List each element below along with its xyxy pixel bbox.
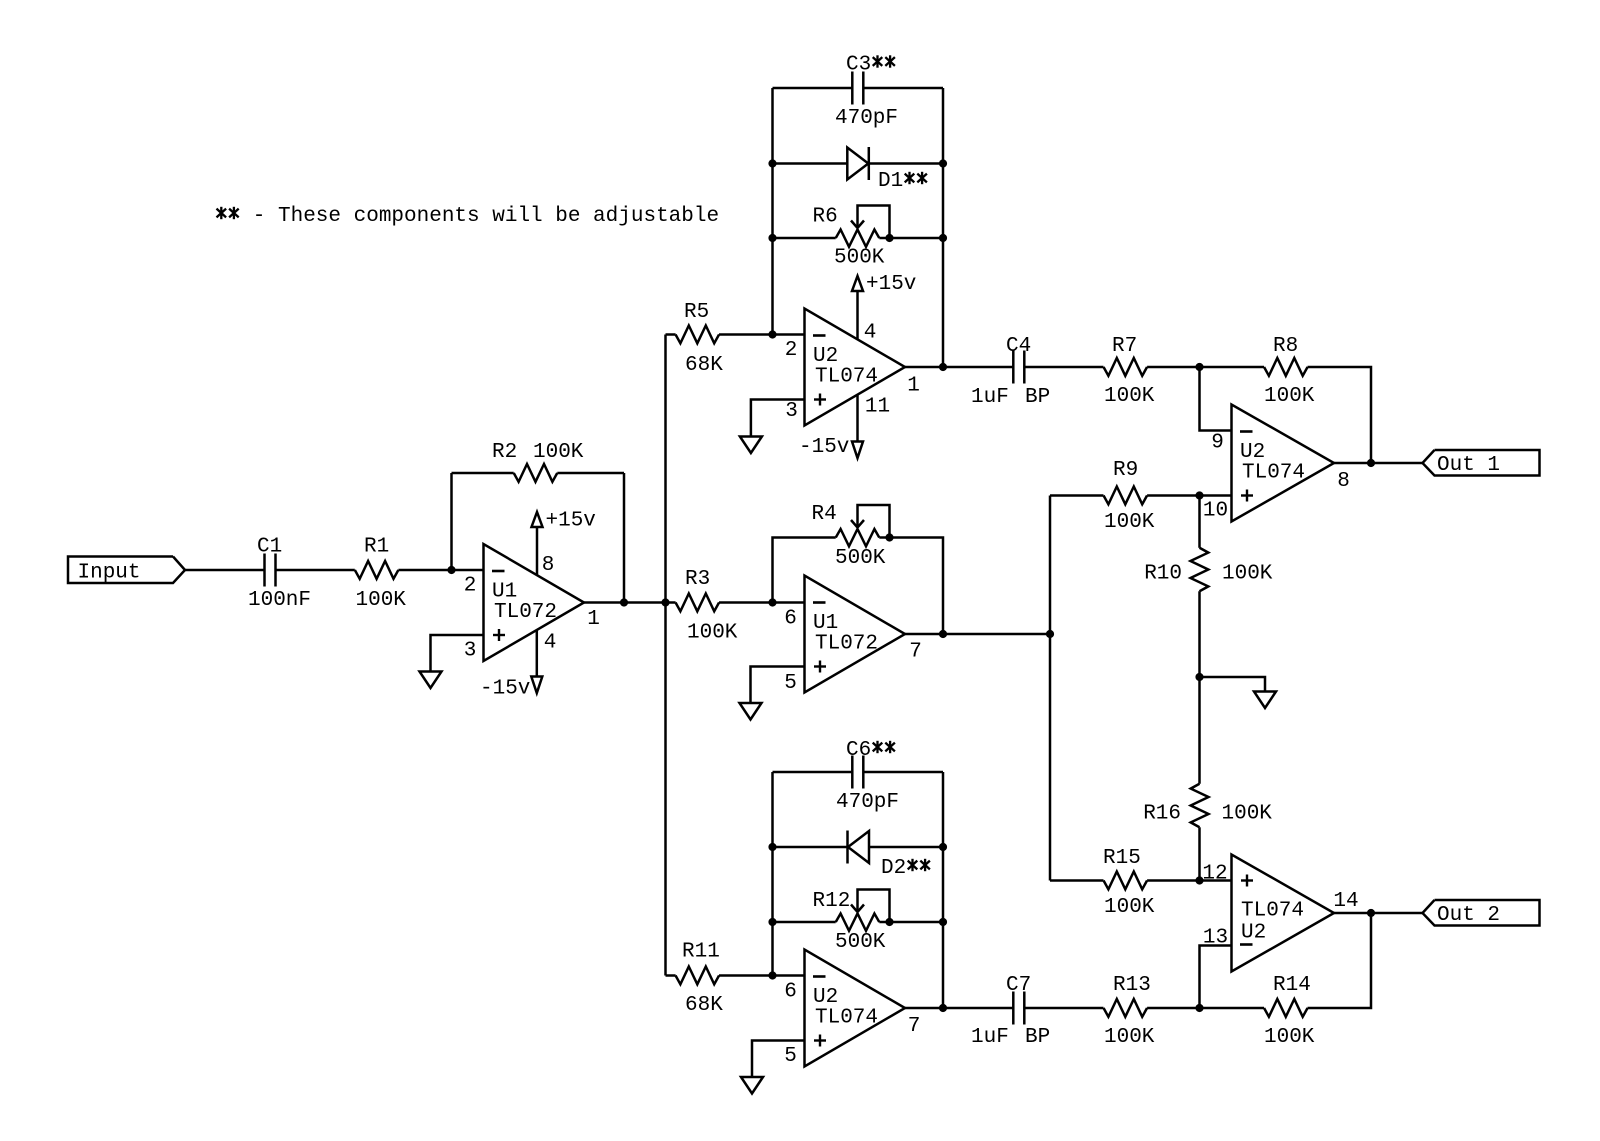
svg-text:TL074: TL074 [1242, 462, 1305, 485]
wire C3 right [863, 87, 943, 90]
svg-text:BP: BP [1025, 1026, 1050, 1049]
pin label 14 (U2d) [1333, 890, 1358, 913]
ground U1b pin5 [740, 667, 805, 720]
svg-text:500K: 500K [835, 547, 886, 570]
wire R4 loop right [879, 538, 943, 635]
pin label 8 (U1) [542, 554, 555, 577]
junction pin10/R10 [1195, 491, 1203, 499]
op-amp U2 section D [1232, 855, 1335, 972]
svg-text:2: 2 [464, 575, 477, 598]
wire U2d output [1334, 912, 1423, 915]
junction pin2/loop [768, 330, 776, 338]
svg-text:TL072: TL072 [815, 633, 878, 656]
pin label 1 (U1) [587, 608, 600, 631]
svg-text:R4: R4 [812, 503, 837, 526]
junction R4 wiper [885, 533, 893, 541]
svg-text:100K: 100K [1264, 1026, 1315, 1049]
resistor R7 [1104, 335, 1155, 408]
junction pin12/R15 [1195, 876, 1203, 884]
svg-text:100K: 100K [1104, 385, 1155, 408]
diode D2 [848, 831, 930, 881]
svg-text:TL074: TL074 [815, 366, 878, 389]
svg-text:13: 13 [1203, 927, 1228, 950]
wire D1 right [869, 162, 944, 165]
svg-text:1uF: 1uF [971, 1026, 1009, 1049]
svg-text:-15v: -15v [480, 678, 530, 701]
pin label 1 (U2a) [907, 375, 920, 398]
svg-text:R11: R11 [682, 941, 720, 964]
svg-text:TL074: TL074 [815, 1007, 878, 1030]
pin label 8 (U2b) [1337, 470, 1350, 493]
wire D2 left [773, 846, 848, 849]
junction mid ground [1195, 673, 1203, 681]
capacitor C1 [248, 536, 311, 613]
wire bus to R5 [666, 333, 676, 336]
wire C6 right [863, 771, 943, 774]
junction D2 left [768, 843, 776, 851]
pin label 7 (U1b) [909, 641, 922, 664]
svg-text:6: 6 [784, 608, 797, 631]
pin label 12 (U2d) [1202, 863, 1227, 886]
pin label 7 (U2c) [908, 1015, 921, 1038]
pin label 13 (U2d) [1203, 927, 1228, 950]
svg-text:4: 4 [864, 322, 877, 345]
resistor R3 [676, 568, 738, 645]
svg-text:R2: R2 [492, 441, 517, 464]
wire R2 feedback left [450, 473, 453, 570]
svg-text:100K: 100K [1104, 1026, 1155, 1049]
output port tag Out 1 [1423, 450, 1540, 477]
pin label 5 (U2c) [784, 1045, 797, 1068]
resistor R15 [1103, 847, 1155, 919]
svg-text:2: 2 [785, 339, 798, 362]
svg-text:C1: C1 [257, 536, 282, 559]
capacitor C3 [835, 54, 898, 131]
wire R8 to out junction [1308, 367, 1372, 463]
resistor R5 [676, 301, 724, 377]
pin label 2 (U1) [464, 575, 477, 598]
+15v power U1 [532, 510, 596, 576]
svg-text:R1: R1 [364, 536, 389, 559]
resistor R2 [492, 441, 584, 482]
pin label 10 (U2b) [1203, 500, 1228, 523]
wire R1 to U1 pin2 [398, 569, 483, 572]
wire pin13 [1200, 946, 1232, 1009]
wire R14 left lead [1200, 1007, 1265, 1010]
svg-text:C7: C7 [1006, 974, 1031, 997]
svg-text:100K: 100K [1264, 385, 1315, 408]
wire bottom loop left vertical [771, 772, 774, 976]
svg-text:7: 7 [909, 641, 922, 664]
svg-text:D1: D1 [878, 170, 903, 193]
capacitor C4 [971, 335, 1050, 409]
wire R14 to out junction [1308, 913, 1372, 1008]
capacitor C6 [836, 739, 899, 814]
svg-text:6: 6 [784, 981, 797, 1004]
svg-text:8: 8 [1337, 470, 1350, 493]
svg-text:100K: 100K [533, 441, 584, 464]
wire U2b output [1334, 462, 1423, 465]
svg-text:3: 3 [785, 400, 798, 423]
wire R2 top right [557, 472, 624, 475]
svg-text:BP: BP [1025, 386, 1050, 409]
wire C1 to R1 [276, 569, 355, 572]
svg-text:68K: 68K [685, 994, 723, 1017]
svg-text:R8: R8 [1273, 335, 1298, 358]
wire R16 bottom lead [1198, 827, 1201, 880]
svg-text:TL072: TL072 [494, 601, 557, 624]
resistor R14 [1264, 974, 1315, 1049]
wire top loop right vertical [942, 88, 945, 367]
pin label 2 (U2a) [785, 339, 798, 362]
wire R2 top left [452, 472, 514, 475]
svg-text:11: 11 [865, 396, 890, 419]
svg-text:100K: 100K [687, 622, 738, 645]
svg-text:100nF: 100nF [248, 589, 311, 612]
svg-text:R14: R14 [1273, 974, 1311, 997]
op-amp U2 section B [1232, 405, 1335, 522]
resistor R10 [1144, 548, 1273, 592]
svg-text:100K: 100K [356, 589, 407, 612]
wire R12 left [773, 921, 836, 924]
svg-text:470pF: 470pF [836, 791, 899, 814]
wire U2a out to C4 [943, 366, 1013, 369]
resistor R13 [1104, 974, 1155, 1049]
wire D2 right [869, 846, 943, 849]
svg-text:R12: R12 [813, 890, 851, 913]
junction R7/R8/pin9 [1195, 363, 1203, 371]
input port tag Input [68, 557, 185, 585]
note text: components adjustable [217, 205, 720, 228]
svg-text:Out 2: Out 2 [1437, 904, 1500, 927]
wire U1b out to network [905, 633, 1050, 636]
wire U2c out to C7 [943, 1007, 1013, 1010]
op-amp U1 second half [805, 576, 906, 693]
op-amp U1 first half [484, 544, 585, 661]
svg-text:R15: R15 [1103, 847, 1141, 870]
wire R10 bottom lead [1198, 591, 1201, 677]
wire R8 left lead [1200, 366, 1265, 369]
junction R12 wiper [885, 918, 893, 926]
+15v power U2 [852, 273, 916, 339]
pin label 6 (U1b) [784, 608, 797, 631]
wire R16 top lead [1198, 677, 1201, 784]
wire R5 to U2 pin2 [719, 333, 805, 336]
junction network vertical [1046, 630, 1054, 638]
wire R7 to junction [1147, 366, 1199, 369]
ground U2c pin5 [741, 1041, 805, 1094]
ground U1 pin3 [420, 635, 484, 688]
wire bus vertical [664, 335, 667, 976]
junction bus [661, 598, 669, 606]
pin label 5 (U1b) [784, 672, 797, 695]
svg-text:R5: R5 [684, 301, 709, 324]
svg-text:TL074: TL074 [1241, 900, 1304, 923]
svg-text:68K: 68K [685, 354, 723, 377]
resistor R16 [1143, 784, 1272, 828]
resistor R11 [676, 941, 724, 1018]
svg-text:R16: R16 [1143, 803, 1181, 826]
wire R4 loop left [773, 538, 836, 603]
wire R2 feedback right [623, 473, 626, 603]
svg-text:100K: 100K [1104, 896, 1155, 919]
wire R10 top lead [1198, 496, 1201, 548]
potentiometer R4 [812, 503, 890, 570]
ground U2a pin3 [740, 400, 805, 454]
junction U2a out / loop [939, 363, 947, 371]
wire U2c output [905, 1007, 943, 1010]
junction U2b out [1367, 459, 1375, 467]
svg-text:4: 4 [544, 632, 557, 655]
svg-text:U2: U2 [1241, 922, 1266, 945]
potentiometer R12 [813, 890, 890, 955]
op-amp U2 section A [805, 309, 906, 426]
output port tag Out 2 [1423, 900, 1540, 927]
wire C4 to R7 [1024, 366, 1103, 369]
junction R6 left [768, 234, 776, 242]
wire D1 left [773, 162, 848, 165]
svg-text:R10: R10 [1144, 563, 1182, 586]
wire C6 left [773, 771, 853, 774]
svg-text:14: 14 [1333, 890, 1358, 913]
pin label 4 (U2a) [864, 322, 877, 345]
svg-text:R7: R7 [1112, 335, 1137, 358]
svg-text:100K: 100K [1222, 803, 1273, 826]
svg-text:1: 1 [907, 375, 920, 398]
pin label 3 (U1) [464, 640, 477, 663]
wire R13 to junction [1147, 1007, 1199, 1010]
svg-text:7: 7 [908, 1015, 921, 1038]
svg-text:-15v: -15v [799, 436, 849, 459]
svg-text:500K: 500K [834, 247, 885, 270]
svg-text:470pF: 470pF [835, 107, 898, 130]
wire R9 left [1050, 494, 1104, 497]
ground divider [1200, 677, 1277, 708]
svg-text:8: 8 [542, 554, 555, 577]
wire bottom loop right vertical [942, 772, 945, 1008]
svg-text:100K: 100K [1104, 511, 1155, 534]
wire network vertical [1049, 496, 1052, 881]
wire input to C1 [185, 569, 265, 572]
junction R4 loop / U1b out [939, 630, 947, 638]
svg-text:1: 1 [587, 608, 600, 631]
junction D2 right [939, 843, 947, 851]
wire R15 left [1050, 879, 1104, 882]
svg-text:100K: 100K [1222, 563, 1273, 586]
wire C3 left [773, 87, 853, 90]
pin label 6 (U2c) [784, 981, 797, 1004]
svg-text:R6: R6 [813, 206, 838, 229]
pin label 3 (U2a) [785, 400, 798, 423]
wire U2a output [905, 366, 943, 369]
resistor R1 [355, 536, 406, 613]
resistor R9 [1104, 459, 1155, 534]
junction R12 left [768, 918, 776, 926]
junction R13/R14/pin13 [1195, 1004, 1203, 1012]
wire R11 to U2c pin6 [719, 974, 805, 977]
potentiometer R6 [813, 206, 890, 270]
-15v power U2 [799, 395, 863, 459]
svg-text:3: 3 [464, 640, 477, 663]
wire C7 to R13 [1024, 1007, 1103, 1010]
wire R9 to pin10 [1147, 494, 1231, 497]
svg-text:Out 1: Out 1 [1437, 454, 1500, 477]
capacitor C7 [971, 974, 1050, 1049]
wire R12 right [879, 921, 943, 924]
wire top loop left vertical [771, 88, 774, 335]
junction pin6/R4 loop [768, 598, 776, 606]
wire R6 left [773, 237, 836, 240]
svg-text:500K: 500K [835, 931, 886, 954]
wire R6 right [879, 237, 943, 240]
junction U2d out [1367, 909, 1375, 917]
svg-text:C4: C4 [1006, 335, 1031, 358]
svg-text:C6: C6 [846, 739, 871, 762]
junction U2c out / loop [939, 1004, 947, 1012]
wire bus to R3 [666, 601, 676, 604]
junction U1 out / R2 [620, 598, 628, 606]
svg-text:9: 9 [1211, 432, 1224, 455]
junction D1 left [768, 159, 776, 167]
wire pin9 [1200, 367, 1232, 431]
svg-text:R3: R3 [685, 568, 710, 591]
svg-text:R13: R13 [1113, 974, 1151, 997]
wire bus to R11 [666, 974, 676, 977]
svg-text:- These components will be adj: - These components will be adjustable [253, 205, 719, 228]
junction R1/R2 [447, 566, 455, 574]
wire R15 to pin12 [1147, 879, 1231, 882]
svg-text:1uF: 1uF [971, 386, 1009, 409]
pin label 11 (U2a) [865, 396, 890, 419]
resistor R8 [1264, 335, 1315, 408]
wire U1 output [584, 601, 666, 604]
pin label 4 (U1) [544, 632, 557, 655]
svg-text:R9: R9 [1113, 459, 1138, 482]
svg-text:D2: D2 [881, 857, 906, 880]
wire R3 to U1b pin6 [719, 601, 805, 604]
diode D1 [847, 147, 927, 193]
pin label 9 (U2b) [1211, 432, 1224, 455]
svg-text:+15v: +15v [866, 273, 916, 296]
op-amp U2 section C [805, 950, 906, 1067]
junction R6 right [939, 234, 947, 242]
svg-text:10: 10 [1203, 500, 1228, 523]
svg-text:5: 5 [784, 1045, 797, 1068]
junction D1 right [939, 159, 947, 167]
junction pin6/bottom loop [768, 971, 776, 979]
svg-text:Input: Input [78, 562, 141, 585]
junction R6 wiper [885, 234, 893, 242]
svg-text:C3: C3 [846, 54, 871, 77]
svg-text:5: 5 [784, 672, 797, 695]
-15v power U1 [480, 630, 542, 701]
svg-text:12: 12 [1202, 863, 1227, 886]
svg-text:+15v: +15v [546, 510, 596, 533]
junction R12 right [939, 918, 947, 926]
